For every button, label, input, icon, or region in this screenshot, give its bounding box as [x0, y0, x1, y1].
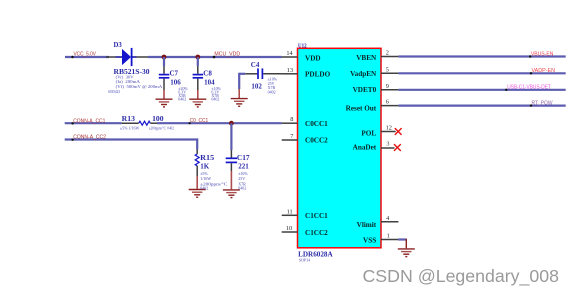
svg-text:C4: C4 — [251, 61, 260, 69]
svg-text:VDD: VDD — [305, 55, 321, 63]
wire junction to C17 — [230, 123, 232, 150]
svg-text:1/16W: 1/16W — [200, 176, 211, 181]
svg-text:C8: C8 — [203, 70, 212, 78]
svg-text:1K: 1K — [200, 162, 210, 170]
node MCU_VDD anchor dot — [213, 56, 216, 59]
svg-text:(Vf) 500mV @ 200mA: (Vf) 500mV @ 200mA — [116, 84, 163, 89]
node C0_CC1 anchor dot — [189, 122, 191, 124]
svg-text:C0_CC1: C0_CC1 — [190, 118, 209, 124]
svg-text:C17: C17 — [237, 154, 250, 162]
svg-text:14: 14 — [286, 50, 293, 57]
ground below C8 — [189, 99, 206, 107]
svg-text:C7: C7 — [170, 70, 179, 78]
pin 2 VBEN — [381, 56, 398, 58]
svg-text:VADP-EN: VADP-EN — [532, 68, 556, 74]
pin 6 Reset Out — [381, 105, 398, 107]
svg-text:12: 12 — [386, 125, 392, 132]
wire CONN-A_CC1 — [65, 122, 122, 124]
svg-text:0402: 0402 — [238, 185, 246, 190]
wire MCU_VDD rail — [148, 56, 282, 58]
svg-text:C0CC1: C0CC1 — [305, 120, 328, 128]
pin 11 C1CC1 — [282, 214, 298, 216]
svg-text:CSDN @Legendary_008: CSDN @Legendary_008 — [363, 266, 560, 286]
wire C4 to ground — [238, 73, 240, 89]
svg-text:±200ppm/°C 0402: ±200ppm/°C 0402 — [149, 126, 174, 131]
svg-text:7: 7 — [290, 133, 293, 140]
svg-text:VSS: VSS — [363, 237, 376, 245]
op-amp U12 LDR6028A IC body — [298, 48, 382, 248]
ground at VSS — [398, 249, 415, 257]
wire VSS to ground — [398, 238, 406, 240]
junction at C8 — [195, 55, 200, 60]
svg-text:10: 10 — [286, 225, 292, 232]
junction C0_CC1 — [229, 121, 234, 126]
svg-text:USB-C1-VBUS-DET: USB-C1-VBUS-DET — [507, 85, 551, 91]
pin 14 VDD — [282, 56, 298, 58]
no-connect X on pin 12 — [395, 128, 402, 135]
svg-text:VBUS-EN: VBUS-EN — [531, 51, 554, 57]
svg-text:CONN-A_CC1: CONN-A_CC1 — [73, 118, 105, 124]
wire CONN-A_CC2 — [65, 140, 198, 150]
svg-text:0402: 0402 — [200, 185, 208, 190]
svg-text:13: 13 — [287, 67, 293, 74]
pin 7 C0CC2 — [282, 139, 298, 141]
svg-text:R15: R15 — [200, 154, 215, 162]
svg-text:±5% 1/16W: ±5% 1/16W — [120, 126, 140, 131]
svg-text:Reset Out: Reset Out — [346, 104, 377, 112]
svg-text:MCU_VDD: MCU_VDD — [214, 52, 240, 58]
svg-text:AnaDet: AnaDet — [353, 144, 377, 152]
svg-text:5: 5 — [386, 66, 389, 73]
svg-text:9: 9 — [386, 83, 389, 90]
svg-text:SOP14: SOP14 — [299, 257, 310, 262]
svg-text:POL: POL — [361, 129, 376, 137]
diode D3 — [106, 48, 148, 66]
resistor R15 — [195, 150, 199, 189]
ground below R15 — [189, 190, 206, 198]
svg-text:2: 2 — [386, 50, 389, 57]
wire USB-C1-VBUS-DET — [398, 89, 565, 91]
resistor R13 — [122, 121, 157, 125]
svg-text:221: 221 — [238, 162, 249, 170]
svg-text:0402: 0402 — [211, 97, 219, 102]
wire R13 to pin 8 — [157, 122, 282, 124]
svg-text:3: 3 — [386, 141, 389, 148]
svg-text:1: 1 — [387, 233, 390, 240]
svg-text:VDET0: VDET0 — [353, 86, 377, 94]
svg-text:R13: R13 — [122, 115, 136, 123]
svg-text:100: 100 — [152, 115, 164, 123]
pin 8 C0CC1 — [282, 122, 298, 124]
ground below C17 — [223, 190, 240, 198]
svg-text:102: 102 — [251, 83, 262, 91]
svg-text:RT_POW: RT_POW — [532, 100, 554, 106]
svg-text:0402: 0402 — [268, 89, 276, 94]
svg-text:VCC_5.0V: VCC_5.0V — [74, 52, 97, 58]
wire RT_POW — [398, 104, 565, 106]
pin 4 Vlimit — [381, 221, 398, 223]
no-connect X on pin 3 — [394, 144, 401, 151]
wire VCC_5.0V rail — [65, 56, 109, 58]
wire VBUS-EN — [398, 55, 565, 57]
pin 12 POL — [381, 131, 396, 133]
svg-text:C1CC2: C1CC2 — [305, 229, 328, 237]
wire VADP-EN — [398, 72, 565, 74]
svg-text:8: 8 — [290, 116, 293, 123]
pin 9 VDET0 — [381, 89, 398, 91]
svg-text:VadpEN: VadpEN — [350, 70, 377, 78]
pin 13 PDLDO — [282, 73, 298, 75]
svg-text:25V: 25V — [238, 176, 245, 181]
svg-text:Vlimit: Vlimit — [357, 221, 377, 229]
svg-text:6: 6 — [386, 99, 389, 106]
capacitor C17 — [226, 150, 237, 189]
svg-text:C0CC2: C0CC2 — [305, 137, 328, 145]
ground below C7 — [156, 99, 173, 107]
ground below C4 — [231, 99, 248, 107]
capacitor C8 — [193, 57, 204, 99]
pin 1 VSS — [381, 239, 398, 241]
pin 5 VadpEN — [381, 72, 398, 74]
node VCC_5.0V anchor dot — [71, 56, 73, 58]
svg-text:D3: D3 — [114, 42, 123, 49]
svg-text:U12: U12 — [298, 43, 307, 50]
svg-text:11: 11 — [287, 208, 293, 215]
svg-text:SOD423: SOD423 — [108, 89, 120, 94]
svg-text:VBEN: VBEN — [356, 54, 377, 62]
pin 10 C1CC2 — [282, 231, 298, 233]
junction at C7 — [162, 55, 167, 60]
capacitor C4 — [239, 68, 282, 79]
svg-text:CONN-A_CC2: CONN-A_CC2 — [73, 135, 106, 141]
svg-text:PDLDO: PDLDO — [305, 71, 331, 79]
svg-text:C1CC1: C1CC1 — [305, 212, 328, 220]
pin 3 AnaDet — [381, 147, 395, 149]
capacitor C7 — [159, 57, 170, 99]
svg-text:0402: 0402 — [178, 97, 186, 102]
